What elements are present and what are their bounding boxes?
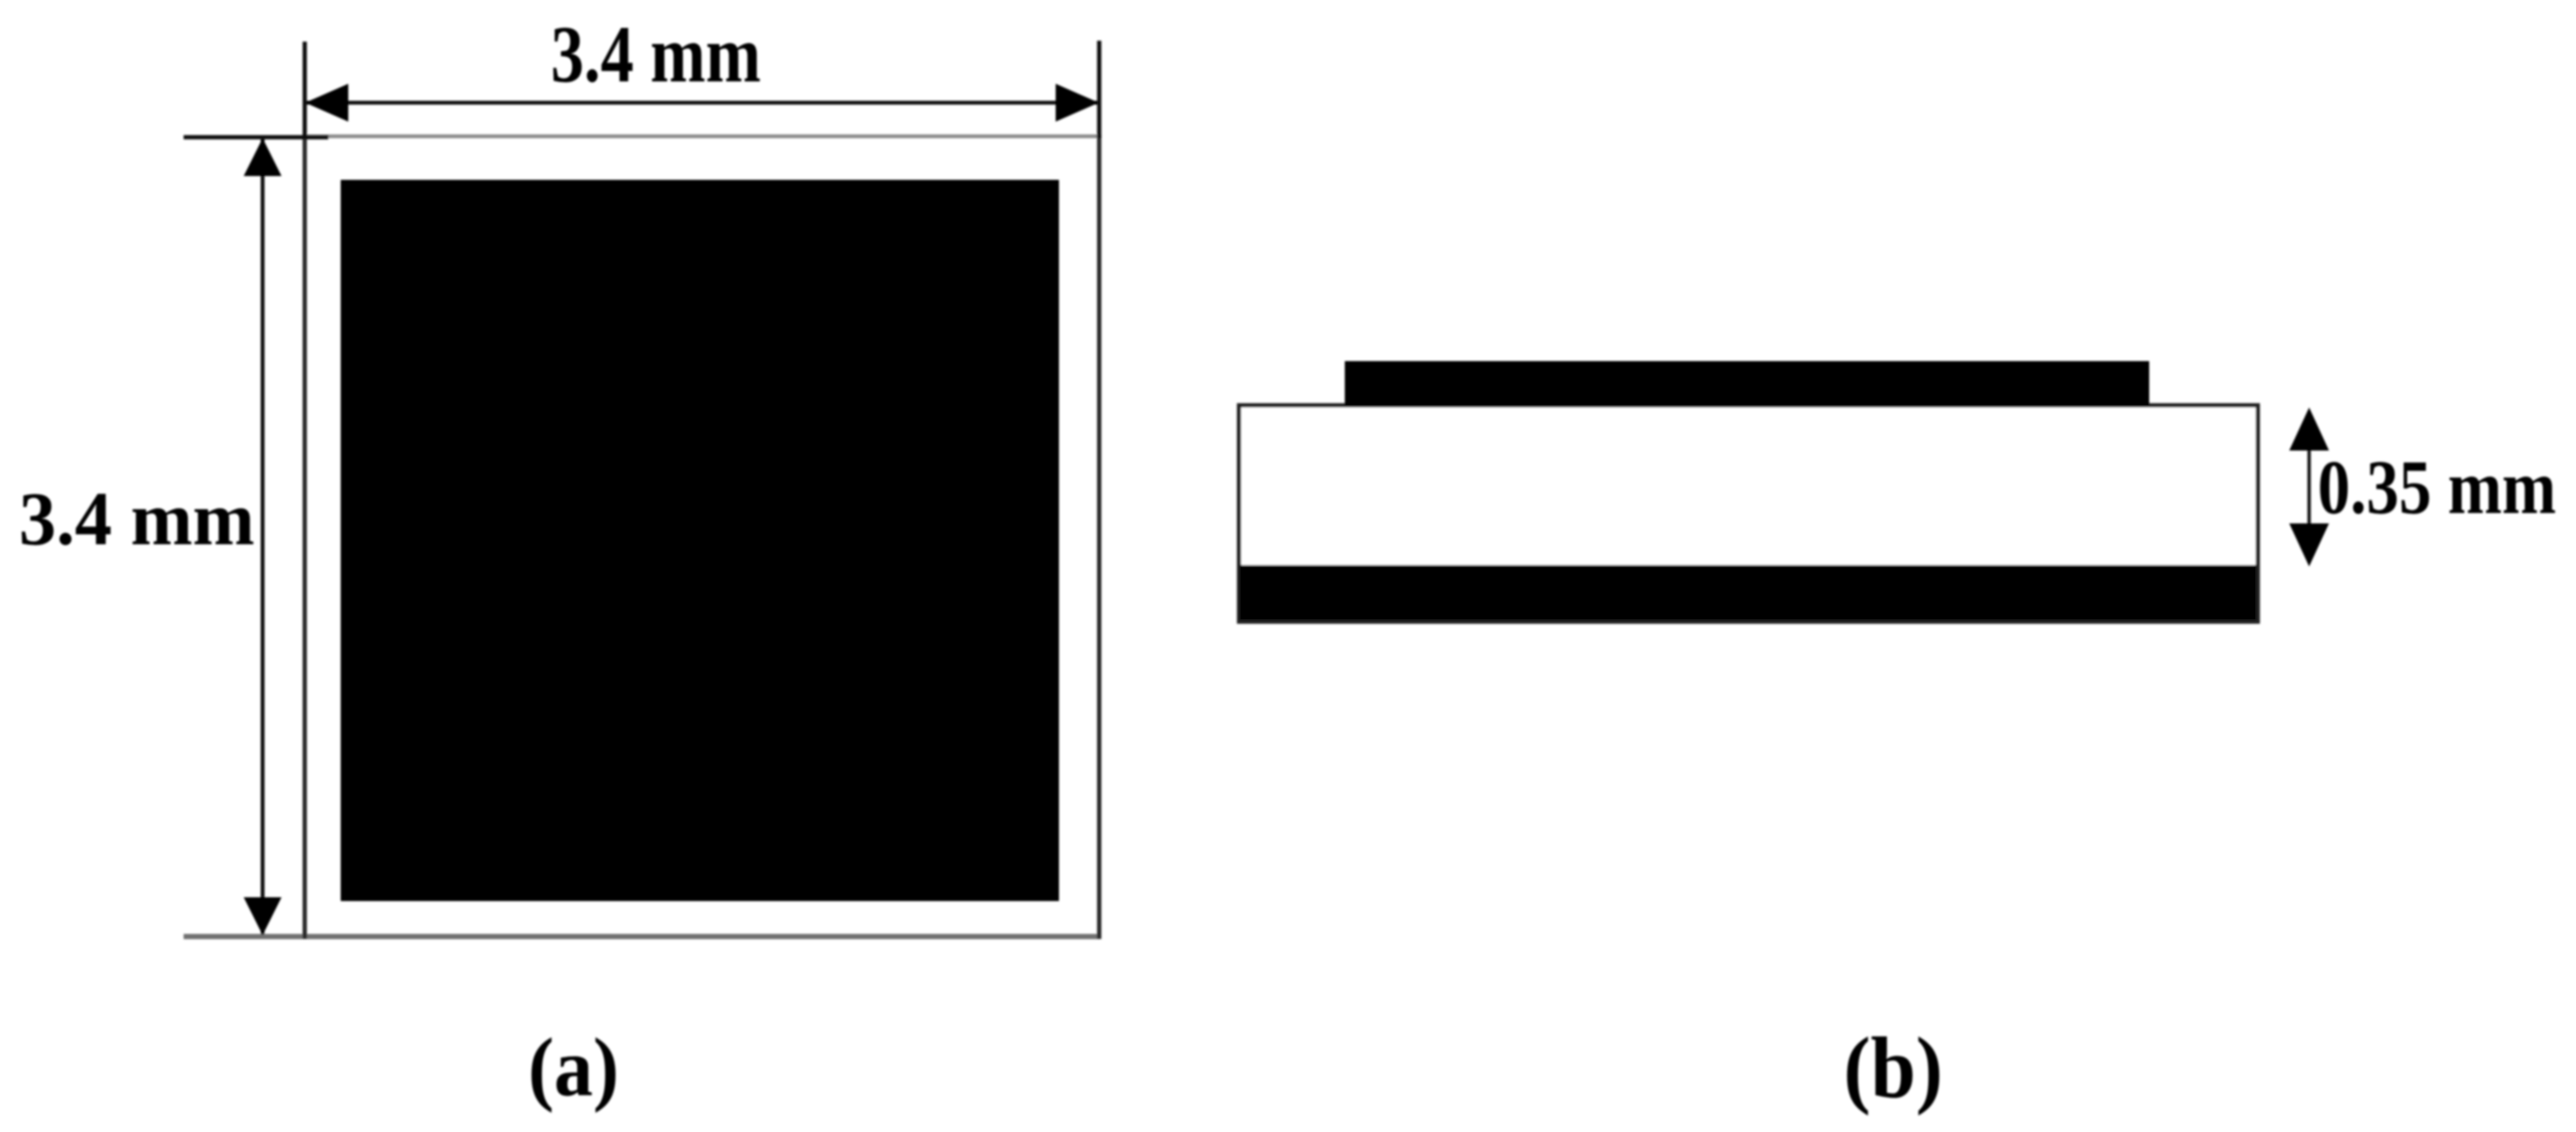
height dimension line: [244, 138, 282, 935]
width dimension line: [306, 84, 1100, 122]
extension line right (width dim): [1097, 41, 1102, 138]
extension line top (height dim): [184, 135, 328, 140]
substrate body (side view) figure b: [1239, 405, 2258, 622]
substrate outline (top view) figure a: [184, 134, 1102, 939]
patch (black square, top view): [341, 180, 1059, 901]
thickness label 0.35 mm: [2318, 444, 2556, 530]
height label 3.4 mm (left): [19, 478, 255, 561]
svg-text:3.4 mm: 3.4 mm: [551, 9, 761, 99]
caption (b): [1844, 1019, 1943, 1116]
extension line left (width dim): [303, 42, 308, 138]
thickness dimension double arrow: [2289, 408, 2329, 567]
svg-text:(a): (a): [528, 1022, 619, 1114]
caption (a): [528, 1022, 619, 1114]
width label 3.4 mm (top): [551, 9, 761, 99]
ground plane strip (side view): [1240, 565, 2256, 620]
svg-text:0.35 mm: 0.35 mm: [2318, 444, 2556, 530]
svg-text:3.4 mm: 3.4 mm: [19, 478, 255, 561]
svg-text:(b): (b): [1844, 1019, 1943, 1116]
patch strip (side view, top bar): [1345, 362, 2149, 406]
